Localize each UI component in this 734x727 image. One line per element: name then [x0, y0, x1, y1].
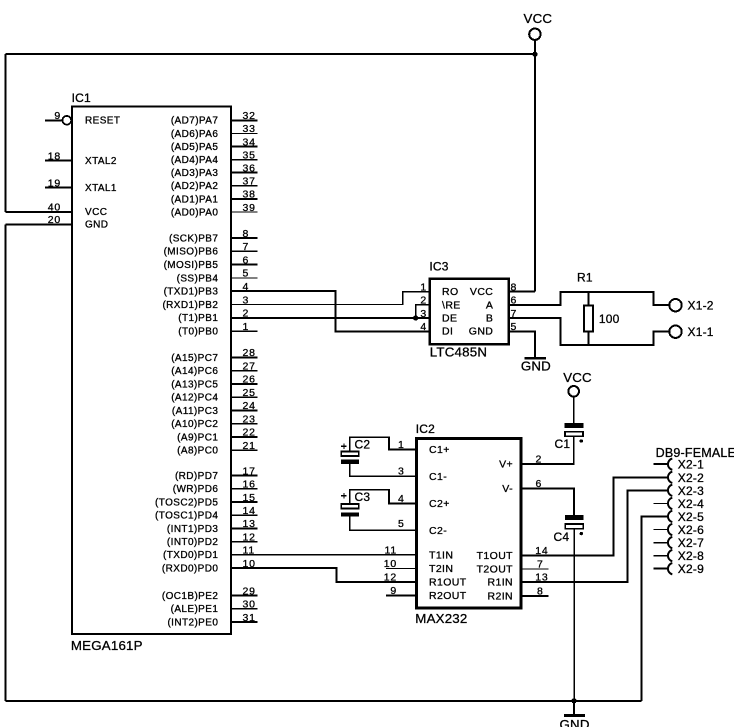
svg-text:(AD5)PA5: (AD5)PA5: [171, 142, 219, 153]
svg-text:C4: C4: [554, 530, 570, 544]
IC3 pin 8 VCC stub: [509, 291, 535, 293]
IC1 pin 33 (AD6)PA6 stub: [231, 132, 258, 134]
svg-text:C2+: C2+: [429, 498, 450, 510]
svg-text:DE: DE: [442, 312, 457, 324]
IC1 pin 35 (AD4)PA4 stub: [231, 159, 258, 161]
svg-text:(A10)PC2: (A10)PC2: [171, 419, 218, 430]
IC2 box: [416, 439, 521, 608]
wire GND bottom rail: [5, 700, 641, 702]
IC1 pin 17 (RD)PD7 stub: [231, 475, 258, 477]
svg-text:XTAL1: XTAL1: [85, 183, 117, 194]
svg-text:RESET: RESET: [85, 116, 120, 127]
svg-text:12: 12: [384, 571, 397, 583]
svg-text:25: 25: [243, 387, 256, 399]
svg-text:C1: C1: [555, 437, 571, 451]
svg-text:(WR)PD6: (WR)PD6: [173, 484, 219, 495]
IC1 pin 6 (MOSI)PB5 stub: [231, 264, 258, 266]
wire IC2 V- pin 6 to C4: [521, 489, 574, 516]
svg-text:X2-4: X2-4: [678, 497, 704, 511]
svg-text:20: 20: [48, 214, 61, 226]
svg-text:(INT2)PE0: (INT2)PE0: [167, 618, 218, 629]
svg-text:C2-: C2-: [429, 525, 447, 537]
svg-text:IC1: IC1: [72, 91, 91, 105]
svg-text:DI: DI: [442, 326, 453, 338]
IC1 pin 30 (ALE)PE1 stub: [231, 608, 258, 610]
IC1 pin 22 (A9)PC1 stub: [231, 436, 258, 438]
svg-text:30: 30: [243, 599, 256, 611]
connector pin X2-5: [668, 511, 672, 522]
svg-text:35: 35: [243, 149, 256, 161]
IC1 pin 26 (A13)PC5 stub: [231, 383, 258, 385]
svg-text:3: 3: [420, 308, 427, 320]
wire VCC to C1: [573, 397, 575, 423]
svg-text:(AD6)PA6: (AD6)PA6: [171, 129, 219, 140]
svg-text:VCC: VCC: [470, 286, 493, 298]
svg-text:8: 8: [511, 281, 518, 293]
svg-text:MEGA161P: MEGA161P: [71, 638, 143, 653]
svg-text:7: 7: [243, 241, 250, 253]
svg-text:X2-3: X2-3: [678, 484, 704, 498]
svg-text:9: 9: [390, 585, 397, 597]
svg-text:X2-8: X2-8: [678, 549, 704, 563]
wire R1IN pin13 to X2-3: [521, 490, 667, 582]
svg-text:2: 2: [420, 295, 427, 307]
IC1 pin 19 stub: [45, 187, 72, 189]
svg-text:14: 14: [535, 545, 548, 557]
IC1 box: [72, 107, 231, 635]
IC3 box: [430, 279, 509, 345]
IC1 pin 13 (INT1)PD3 stub: [231, 527, 258, 529]
IC1 part name MEGA161P: [71, 638, 143, 653]
svg-text:33: 33: [243, 123, 256, 135]
svg-text:(AD1)PA1: (AD1)PA1: [171, 194, 219, 205]
IC1 designator label: [72, 91, 91, 105]
svg-text:(T1)PB1: (T1)PB1: [178, 313, 218, 324]
IC1 pin 34 (AD5)PA5 stub: [231, 146, 258, 148]
IC3 pin 5 GND stub: [509, 332, 535, 358]
svg-text:4: 4: [420, 321, 427, 333]
wire RXD1/PB2 pin3 to IC3 RO: [231, 292, 430, 305]
wire T1OUT pin14 to X2-2: [521, 477, 667, 555]
svg-text:37: 37: [243, 176, 256, 188]
IC1 pin 24 (A11)PC3 stub: [231, 409, 258, 411]
svg-text:4: 4: [398, 493, 405, 505]
svg-text:C1-: C1-: [429, 471, 447, 483]
svg-text:X2-7: X2-7: [678, 536, 704, 550]
wire IC3 A to R1 top rail: [509, 292, 670, 305]
svg-text:39: 39: [243, 202, 256, 214]
svg-text:3: 3: [398, 465, 405, 477]
IC2 pin 9 R2OUT stub: [386, 595, 416, 597]
wire IC3 B to R1 bottom rail: [509, 318, 670, 345]
wire X2-5 to GND rail: [641, 516, 667, 701]
svg-text:X2-6: X2-6: [678, 523, 704, 537]
connector title DB9-FEMALE: [656, 446, 734, 460]
svg-text:(MOSI)PB5: (MOSI)PB5: [164, 260, 219, 271]
node junction at IC3 DE: [413, 315, 418, 320]
svg-text:29: 29: [243, 585, 256, 597]
svg-text:X2-9: X2-9: [678, 562, 704, 576]
wire DE to /RE jog: [416, 305, 430, 318]
IC1 pin 9 inverter bubble: [62, 116, 71, 125]
IC1 pin 8 (SCK)PB7 stub: [231, 237, 258, 239]
svg-text:(T0)PB0: (T0)PB0: [178, 327, 218, 338]
svg-text:T1IN: T1IN: [429, 549, 453, 561]
IC1 pin 12 (INT0)PD2 stub: [231, 541, 258, 543]
IC1 pin 16 (WR)PD6 stub: [231, 488, 258, 490]
wire VCC top rail: [6, 53, 535, 55]
capacitor C1: [565, 423, 584, 428]
capacitor C4: [565, 515, 584, 520]
svg-text:(SS)PB4: (SS)PB4: [177, 273, 219, 284]
IC1 pin 31 (INT2)PE0 stub: [231, 621, 258, 623]
ground GND bottom: [560, 701, 590, 727]
C2 polarity plus: [341, 445, 346, 447]
wire T1/PB1 pin2 to IC3 DE: [231, 317, 430, 319]
svg-text:\RE: \RE: [442, 299, 461, 311]
svg-text:C3: C3: [355, 490, 371, 504]
power VCC above C1: [563, 370, 592, 397]
svg-text:100: 100: [599, 312, 620, 326]
IC1 pin 9 RESET stub: [45, 119, 62, 121]
svg-text:VCC: VCC: [524, 11, 553, 26]
svg-text:(A11)PC3: (A11)PC3: [172, 406, 218, 417]
connector pin X2-9: [654, 568, 668, 570]
svg-text:6: 6: [536, 478, 543, 490]
svg-text:23: 23: [243, 414, 256, 426]
svg-text:5: 5: [511, 321, 518, 333]
svg-text:GND: GND: [469, 326, 494, 338]
C4 polarity dot: [580, 532, 583, 535]
svg-text:15: 15: [243, 492, 256, 504]
svg-text:22: 22: [243, 427, 256, 439]
wire TXD1/PB3 pin4 to IC3 DI: [231, 291, 430, 331]
IC1 pin 39 (AD0)PA0 stub: [231, 211, 258, 213]
svg-text:GND: GND: [560, 717, 590, 727]
svg-text:VCC: VCC: [563, 370, 592, 385]
svg-text:B: B: [486, 312, 493, 324]
IC3 designator label: [429, 259, 448, 273]
svg-text:10: 10: [384, 558, 397, 570]
capacitor C2: [350, 437, 417, 451]
svg-text:5: 5: [398, 518, 405, 530]
connector pin X2-8: [654, 555, 668, 557]
IC1 pin 1 (T0)PB0 stub: [231, 330, 258, 332]
svg-text:IC3: IC3: [429, 259, 448, 273]
svg-text:7: 7: [537, 559, 544, 571]
svg-text:T2IN: T2IN: [429, 563, 453, 575]
terminal X1-1: [669, 325, 713, 339]
connector pin X2-7: [654, 542, 668, 544]
svg-text:8: 8: [243, 228, 250, 240]
svg-text:(AD0)PA0: (AD0)PA0: [171, 207, 219, 218]
ground GND under IC3: [521, 358, 551, 373]
svg-text:(SCK)PB7: (SCK)PB7: [169, 233, 218, 244]
IC1 pin 27 (A14)PC6 stub: [231, 370, 258, 372]
svg-text:R1: R1: [577, 271, 593, 285]
svg-text:(RXD0)PD0: (RXD0)PD0: [162, 564, 218, 575]
C1 polarity dot: [580, 439, 583, 442]
node VCC junction top: [532, 52, 537, 57]
svg-text:(AD2)PA2: (AD2)PA2: [171, 181, 219, 192]
wire TXD0/PD1 pin11 to MAX232 T1IN: [231, 554, 417, 556]
svg-text:(AD4)PA4: (AD4)PA4: [171, 155, 219, 166]
svg-text:VCC: VCC: [85, 207, 107, 218]
svg-text:LTC485N: LTC485N: [430, 345, 487, 360]
svg-text:6: 6: [243, 254, 250, 266]
svg-text:28: 28: [243, 347, 256, 359]
svg-text:24: 24: [243, 400, 256, 412]
svg-text:T2OUT: T2OUT: [477, 564, 514, 576]
svg-text:27: 27: [243, 361, 256, 373]
svg-text:(OC1B)PE2: (OC1B)PE2: [162, 591, 218, 602]
IC2 pin 8 R2IN stub: [521, 585, 549, 597]
svg-text:(A9)PC1: (A9)PC1: [177, 432, 218, 443]
svg-text:(INT0)PD2: (INT0)PD2: [167, 537, 218, 548]
svg-text:R2OUT: R2OUT: [429, 590, 467, 602]
connector pin X2-3: [668, 485, 672, 496]
connector pin X2-4: [654, 502, 668, 504]
IC2 part name MAX232: [415, 611, 467, 626]
svg-text:T1OUT: T1OUT: [477, 550, 514, 562]
IC2 pin 7 T2OUT stub: [521, 559, 549, 571]
svg-text:38: 38: [243, 189, 256, 201]
svg-text:40: 40: [48, 202, 61, 214]
svg-text:1: 1: [398, 439, 405, 451]
svg-text:(TXD0)PD1: (TXD0)PD1: [163, 550, 218, 561]
svg-text:MAX232: MAX232: [415, 611, 467, 626]
svg-text:(RXD1)PB2: (RXD1)PB2: [162, 300, 218, 311]
terminal X1-2: [669, 299, 713, 313]
svg-text:R1OUT: R1OUT: [429, 576, 467, 588]
IC1 pin 23 (A10)PC2 stub: [231, 423, 258, 425]
svg-text:(MISO)PB6: (MISO)PB6: [164, 247, 219, 258]
svg-text:(ALE)PE1: (ALE)PE1: [171, 604, 219, 615]
svg-text:9: 9: [54, 110, 61, 122]
IC1 pin 14 (TOSC1)PD4 stub: [231, 514, 258, 516]
IC1 pin 5 (SS)PB4 stub: [231, 277, 258, 279]
svg-text:V-: V-: [502, 483, 513, 495]
svg-text:(RD)PD7: (RD)PD7: [175, 471, 218, 482]
svg-text:21: 21: [243, 440, 256, 452]
svg-text:RO: RO: [442, 286, 459, 298]
capacitor C3: [350, 490, 417, 504]
svg-text:8: 8: [537, 585, 544, 597]
IC2 designator label: [416, 422, 435, 436]
svg-text:X1-2: X1-2: [688, 299, 714, 313]
svg-text:26: 26: [243, 374, 256, 386]
svg-text:1: 1: [420, 281, 427, 293]
IC1 pin 25 (A12)PC4 stub: [231, 396, 258, 398]
svg-text:(AD3)PA3: (AD3)PA3: [171, 168, 219, 179]
svg-text:(A13)PC5: (A13)PC5: [171, 379, 218, 390]
IC1 pin 36 (AD3)PA3 stub: [231, 172, 258, 174]
IC1 pin 32 (AD7)PA7 stub: [231, 119, 258, 121]
svg-text:18: 18: [48, 150, 61, 162]
svg-text:19: 19: [48, 177, 61, 189]
IC1 pin 29 (OC1B)PE2 stub: [231, 595, 258, 597]
svg-text:(A15)PC7: (A15)PC7: [171, 353, 218, 364]
svg-text:V+: V+: [499, 459, 513, 471]
svg-text:16: 16: [243, 479, 256, 491]
C3 polarity plus: [341, 495, 346, 497]
svg-text:(AD7)PA7: (AD7)PA7: [171, 116, 219, 127]
svg-text:(A8)PC0: (A8)PC0: [177, 446, 218, 457]
svg-text:2: 2: [536, 454, 543, 466]
svg-text:14: 14: [243, 505, 256, 517]
svg-text:(A12)PC4: (A12)PC4: [171, 393, 218, 404]
IC1 pin 15 (TOSC2)PD5 stub: [231, 501, 258, 503]
svg-text:(TOSC2)PD5: (TOSC2)PD5: [155, 497, 218, 508]
wire RXD0/PD0 pin10 to MAX232 R1OUT: [231, 568, 417, 582]
svg-text:GND: GND: [85, 220, 108, 231]
svg-text:C1+: C1+: [429, 444, 450, 456]
IC1 pin 7 (MISO)PB6 stub: [231, 250, 258, 252]
IC1 pin 21 (A8)PC0 stub: [231, 449, 258, 451]
wire C1 to IC2 V+ pin 2: [521, 436, 574, 464]
resistor R1: [588, 292, 590, 305]
svg-text:5: 5: [243, 268, 250, 280]
svg-text:1: 1: [243, 321, 250, 333]
wire VCC to IC1 pin 40: [6, 211, 72, 213]
svg-text:R2IN: R2IN: [487, 590, 513, 602]
svg-text:C2: C2: [355, 438, 371, 452]
node GND junction bottom: [571, 698, 576, 703]
IC2 pin 10 T2IN stub: [386, 568, 416, 570]
svg-text:X2-2: X2-2: [678, 471, 704, 485]
svg-text:IC2: IC2: [416, 422, 435, 436]
IC1 pin 37 (AD2)PA2 stub: [231, 185, 258, 187]
wire GND left vertical: [4, 224, 6, 701]
wire VCC vertical to IC3 pin 8: [534, 54, 536, 291]
IC3 part name LTC485N: [430, 345, 487, 360]
svg-text:31: 31: [243, 612, 256, 624]
IC1 pin 18 stub: [45, 160, 72, 162]
svg-text:(INT1)PD3: (INT1)PD3: [167, 524, 218, 535]
wire VCC left vertical: [5, 54, 7, 212]
IC1 pin 38 (AD1)PA1 stub: [231, 198, 258, 200]
svg-text:R1IN: R1IN: [487, 577, 513, 589]
svg-text:36: 36: [243, 163, 256, 175]
svg-text:GND: GND: [521, 359, 551, 374]
svg-text:(A14)PC6: (A14)PC6: [171, 366, 218, 377]
connector pin X2-2: [668, 472, 672, 483]
IC1 pin 28 (A15)PC7 stub: [231, 356, 258, 358]
wire C4 to GND rail: [573, 529, 575, 701]
svg-text:X2-1: X2-1: [678, 458, 704, 472]
svg-text:11: 11: [385, 544, 398, 556]
IC3 pin 4 stub DI: [416, 331, 430, 333]
svg-text:X1-1: X1-1: [688, 325, 714, 339]
connector pin X2-1: [654, 463, 668, 465]
svg-text:13: 13: [535, 572, 548, 584]
connector pin X2-6: [654, 529, 668, 531]
svg-text:XTAL2: XTAL2: [85, 156, 117, 167]
svg-text:A: A: [486, 299, 493, 311]
svg-text:13: 13: [243, 518, 256, 530]
svg-text:(TOSC1)PD4: (TOSC1)PD4: [155, 511, 218, 522]
svg-text:(TXD1)PB3: (TXD1)PB3: [164, 287, 219, 298]
svg-text:17: 17: [243, 465, 256, 477]
wire GND from IC1 pin 20: [5, 223, 72, 225]
svg-text:32: 32: [243, 110, 256, 122]
svg-text:34: 34: [243, 136, 256, 148]
svg-text:X2-5: X2-5: [678, 510, 704, 524]
svg-text:12: 12: [243, 531, 256, 543]
power VCC top: [524, 11, 553, 54]
